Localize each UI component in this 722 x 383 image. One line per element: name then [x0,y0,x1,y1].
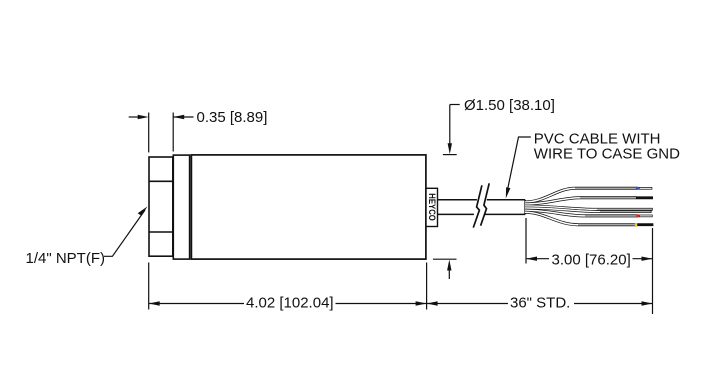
dimension 3.00 [76.20] [526,218,653,314]
collar ring [173,155,189,259]
svg-text:WIRE TO CASE GND: WIRE TO CASE GND [534,146,680,163]
svg-text:36" STD.: 36" STD. [510,295,570,312]
wire 4 (red tip) [525,210,653,216]
wire 2 (black tip) [525,198,653,204]
wire 3 lower (long gray) [525,208,652,212]
svg-text:4.02 [102.04]: 4.02 [102.04] [246,295,334,312]
PVC cable label and leader [507,137,531,195]
wire 1 (blue tip) [525,188,652,202]
transducer body [191,155,426,259]
svg-text:0.35 [8.89]: 0.35 [8.89] [197,109,268,126]
svg-text:3.00 [76.20]: 3.00 [76.20] [552,252,631,269]
HEYCO strain relief [426,188,438,226]
dimension 0.35 [8.89] [129,113,194,153]
cable outline [438,200,526,215]
svg-text:Ø1.50 [38.10]: Ø1.50 [38.10] [464,97,555,114]
wire 3 upper (long gray) [525,206,653,209]
dimension dia 1.50 [38.10] [433,105,460,280]
hex fitting (1/4 NPT) [149,157,173,256]
dimension 4.02 [102.04] [149,263,427,310]
svg-text:HEYCO: HEYCO [427,193,437,221]
1/4 NPT(F) label and leader [104,210,145,256]
wire 5 (yellow tip) [525,212,653,224]
svg-text:1/4" NPT(F): 1/4" NPT(F) [26,250,106,267]
dimension 36" STD. [427,303,653,305]
cable break symbol [473,183,489,227]
